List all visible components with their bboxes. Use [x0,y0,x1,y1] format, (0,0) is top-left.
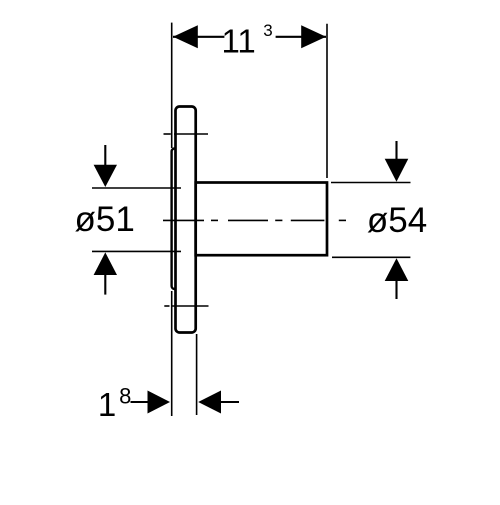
svg-text:3: 3 [263,21,272,40]
svg-text:1: 1 [98,386,116,423]
svg-text:8: 8 [119,384,131,409]
svg-text:ø51: ø51 [75,200,135,239]
svg-text:ø54: ø54 [367,201,427,240]
svg-text:11: 11 [221,22,255,59]
